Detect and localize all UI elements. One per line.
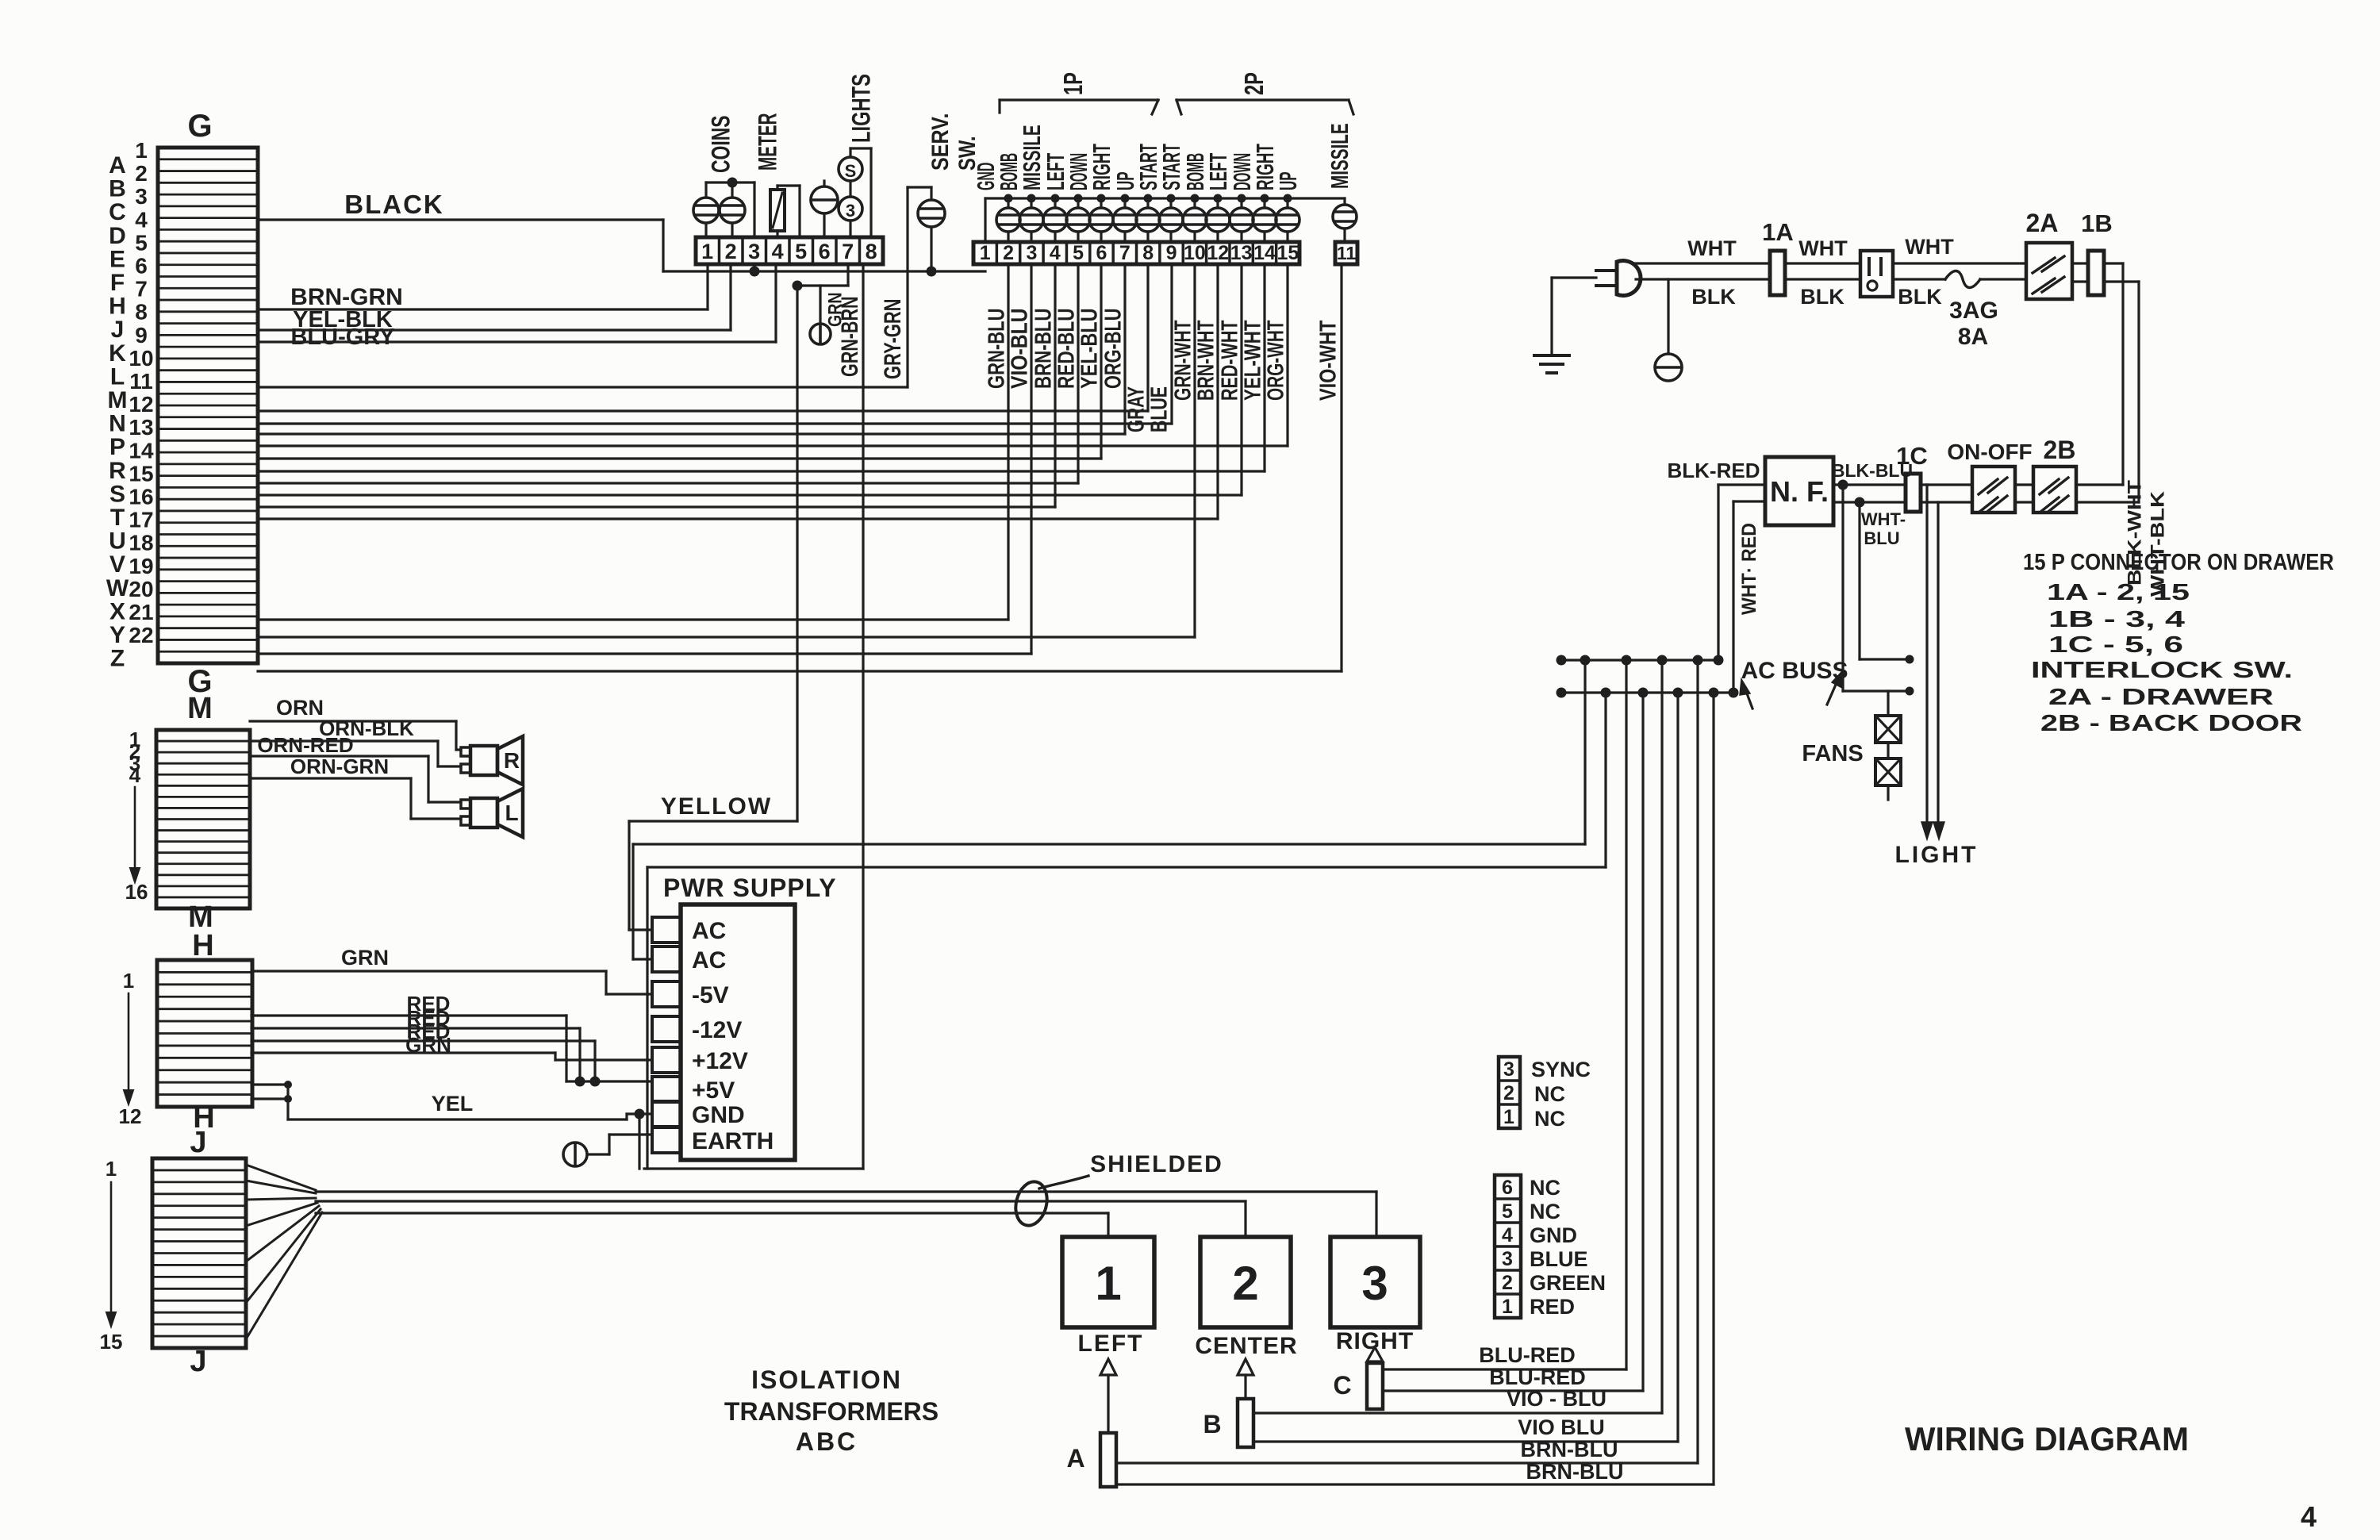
svg-text:NC: NC — [1534, 1107, 1565, 1131]
svg-text:VIO - BLU: VIO - BLU — [1507, 1387, 1606, 1411]
svg-text:16: 16 — [125, 880, 148, 904]
svg-text:22: 22 — [129, 623, 153, 647]
svg-text:SERV.: SERV. — [927, 113, 954, 171]
svg-text:C: C — [109, 199, 126, 225]
svg-text:H: H — [109, 294, 126, 320]
wire G row 11 to GRY-GRN — [258, 386, 908, 388]
svg-text:GRN: GRN — [405, 1033, 451, 1057]
fan B1 — [1875, 691, 1901, 743]
bracket 1P — [1000, 72, 1158, 114]
svg-text:RED-BLU: RED-BLU — [1054, 309, 1079, 390]
svg-text:CENTER: CENTER — [1195, 1333, 1297, 1359]
video connector 3-2-1 — [1499, 1057, 1591, 1131]
svg-text:5: 5 — [135, 230, 148, 255]
wire WHT-RED N.F. to AC buss — [1733, 501, 1765, 693]
svg-text:K: K — [109, 340, 126, 367]
svg-text:R: R — [504, 748, 520, 773]
svg-text:7: 7 — [1119, 242, 1130, 264]
wire YEL-BLK from G row 9 — [258, 264, 731, 332]
label SHIELDED with loop — [1011, 1151, 1223, 1229]
wire fan-out from J — [246, 1165, 322, 1339]
svg-text:NC: NC — [1534, 1082, 1565, 1106]
wire BLK 1A to outlet — [1785, 279, 1860, 309]
svg-text:GRN-BRN: GRN-BRN — [837, 297, 863, 378]
connector H — [157, 929, 252, 1135]
svg-text:GRAY: GRAY — [1123, 386, 1149, 432]
wire shielded line 3 — [316, 1213, 1108, 1237]
svg-text:2: 2 — [725, 240, 737, 263]
svg-text:W: W — [106, 575, 129, 601]
svg-text:GND: GND — [1530, 1223, 1577, 1247]
svg-text:14: 14 — [1253, 242, 1276, 264]
svg-text:6: 6 — [819, 240, 831, 263]
svg-text:A: A — [109, 152, 126, 179]
svg-text:9: 9 — [1166, 242, 1177, 264]
wire GRY-GRN vertical — [906, 187, 908, 387]
svg-text:Z: Z — [110, 646, 125, 672]
svg-text:3: 3 — [135, 184, 148, 209]
wire YELLOW drop from TS1-5 — [796, 286, 798, 821]
svg-text:18: 18 — [129, 531, 153, 555]
svg-text:3: 3 — [1361, 1257, 1388, 1310]
svg-text:GRN-BLU: GRN-BLU — [984, 309, 1009, 390]
wire 2B up to 1B — [2076, 485, 2139, 502]
svg-text:-12V: -12V — [692, 1017, 742, 1043]
svg-text:L: L — [110, 363, 125, 390]
connector H pin numbers — [119, 969, 142, 1128]
svg-text:15: 15 — [1276, 242, 1299, 264]
svg-text:14: 14 — [129, 438, 154, 463]
wire fan feed 1 — [1843, 485, 1914, 696]
wire WHT-BLU N.F. to 1C — [1833, 497, 1906, 549]
svg-text:1C - 5, 6: 1C - 5, 6 — [2048, 632, 2183, 658]
interlock switch 2A — [2026, 209, 2072, 299]
svg-text:5: 5 — [1073, 242, 1084, 264]
wire G rows 21-22 — [258, 620, 1342, 671]
svg-text:ORN: ORN — [276, 696, 324, 720]
svg-text:ABC: ABC — [796, 1427, 858, 1456]
svg-text:1: 1 — [1502, 1296, 1513, 1318]
wire color labels below TS2 — [984, 309, 1341, 433]
svg-text:6: 6 — [1096, 242, 1107, 264]
svg-text:13: 13 — [1230, 242, 1253, 264]
svg-text:1C: 1C — [1896, 442, 1928, 470]
svg-text:S: S — [109, 481, 125, 507]
isolation transformer 3 — [1330, 1237, 1420, 1354]
svg-text:BLK-RED: BLK-RED — [1668, 459, 1760, 482]
lights lamp S — [839, 157, 862, 197]
wire WHT 1A to outlet — [1785, 236, 1860, 263]
svg-text:YEL-BLU: YEL-BLU — [1077, 309, 1102, 390]
switch ON-OFF — [1947, 440, 2032, 513]
svg-text:R: R — [109, 458, 126, 484]
labels above TS2 — [972, 123, 1353, 190]
wire BRN-BLU 2 — [1116, 693, 1714, 1484]
wire junction to +5V — [566, 1077, 651, 1087]
wire BRN-BLU 1 — [1116, 660, 1698, 1463]
svg-text:1B - 3, 4: 1B - 3, 4 — [2048, 607, 2185, 632]
svg-text:INTERLOCK SW.: INTERLOCK SW. — [2031, 658, 2293, 683]
svg-text:J: J — [190, 1345, 206, 1378]
svg-text:21: 21 — [129, 600, 153, 624]
svg-text:BRN-BLU: BRN-BLU — [1521, 1438, 1618, 1461]
power supply PS1 — [652, 874, 837, 1160]
svg-text:AC BUSS: AC BUSS — [1741, 658, 1848, 684]
svg-text:2: 2 — [1502, 1272, 1513, 1294]
svg-text:E: E — [109, 246, 125, 272]
speaker L — [461, 789, 523, 837]
wire WHT outlet to 2A — [1893, 235, 2026, 263]
svg-text:WIRING DIAGRAM: WIRING DIAGRAM — [1905, 1420, 2189, 1457]
svg-text:1: 1 — [1095, 1257, 1121, 1310]
wire YEL — [251, 1081, 651, 1119]
svg-text:9: 9 — [135, 323, 148, 348]
svg-text:15 P CONNECTOR ON DRAWER: 15 P CONNECTOR ON DRAWER — [2023, 550, 2334, 575]
svg-text:METER: METER — [754, 113, 782, 171]
svg-text:4: 4 — [129, 763, 141, 787]
svg-text:19: 19 — [129, 554, 153, 578]
svg-text:ON-OFF: ON-OFF — [1947, 440, 2032, 464]
GND bus over TS2 — [985, 194, 1345, 243]
wire BLU-GRY from G row 10 — [258, 264, 776, 350]
meter M1 — [770, 186, 800, 237]
connector 1B — [2081, 209, 2113, 295]
svg-text:12: 12 — [129, 392, 153, 417]
svg-text:3: 3 — [1502, 1248, 1513, 1270]
wire VIO-BLU 1 — [1253, 660, 1662, 1413]
svg-text:ORG-BLU: ORG-BLU — [1100, 309, 1126, 390]
terminal 11 (missile) — [1335, 242, 1357, 264]
svg-text:1: 1 — [135, 138, 148, 163]
svg-text:U: U — [109, 528, 126, 555]
svg-text:TRANSFORMERS: TRANSFORMERS — [724, 1397, 939, 1426]
ground bus under TS1 — [663, 264, 985, 277]
connector G (44-pin edge connector) — [158, 109, 258, 699]
svg-text:BLUE: BLUE — [1530, 1247, 1588, 1271]
svg-text:PWR SUPPLY: PWR SUPPLY — [663, 874, 837, 902]
svg-text:T: T — [110, 505, 125, 531]
svg-text:D: D — [109, 223, 126, 249]
neutral lamp — [1655, 279, 1682, 381]
svg-text:15: 15 — [100, 1330, 123, 1354]
connector A — [1066, 1359, 1116, 1487]
terminal strip TS1 (8 positions) — [696, 237, 883, 264]
svg-text:6: 6 — [1502, 1177, 1513, 1199]
svg-text:M: M — [187, 692, 213, 725]
svg-text:BLK: BLK — [1898, 285, 1942, 309]
svg-text:8A: 8A — [1958, 324, 1988, 350]
svg-text:WHT-: WHT- — [1861, 509, 1906, 529]
svg-text:AC: AC — [692, 947, 726, 974]
svg-text:GRY-GRN: GRY-GRN — [880, 299, 906, 380]
svg-text:5: 5 — [795, 240, 807, 263]
svg-text:P: P — [109, 434, 125, 460]
switch lamps above TS2 pins 2-15 — [996, 198, 1299, 242]
AC buss top — [1557, 655, 1724, 666]
isolation transformer 2 — [1195, 1237, 1297, 1359]
wire BLACK from G row 4 — [258, 190, 663, 271]
svg-text:1A: 1A — [1762, 218, 1794, 246]
svg-text:7: 7 — [842, 240, 854, 263]
svg-text:GREEN: GREEN — [1530, 1271, 1606, 1295]
svg-text:BRN-BLU: BRN-BLU — [1031, 309, 1056, 390]
wire GND branch down — [638, 1114, 640, 1169]
label SERV. SW. — [927, 113, 981, 171]
wire fan feed 2 — [1860, 502, 1914, 664]
wire BLK-BLU N.F. to 1C — [1832, 460, 1913, 490]
svg-text:M: M — [108, 387, 128, 413]
svg-text:NC: NC — [1530, 1176, 1560, 1200]
svg-text:11: 11 — [129, 369, 153, 394]
svg-text:B: B — [109, 176, 126, 202]
coin switch 2 — [720, 182, 745, 237]
svg-text:2: 2 — [1232, 1257, 1258, 1310]
connector G pin numbers 1-22 — [129, 138, 154, 647]
wire ORN-BLK — [250, 716, 461, 766]
svg-text:EARTH: EARTH — [692, 1128, 773, 1154]
svg-text:VIO BLU: VIO BLU — [1518, 1415, 1605, 1439]
svg-text:16: 16 — [129, 485, 153, 509]
svg-text:VIO-BLU: VIO-BLU — [1007, 309, 1032, 390]
svg-text:3: 3 — [748, 240, 760, 263]
svg-text:BLUE: BLUE — [1146, 386, 1172, 432]
svg-text:LIGHTS: LIGHTS — [847, 74, 876, 143]
svg-text:BRN-BLU: BRN-BLU — [1526, 1460, 1624, 1484]
svg-text:2A: 2A — [2026, 209, 2059, 237]
svg-text:RIGHT: RIGHT — [1336, 1328, 1414, 1354]
svg-text:-5V: -5V — [692, 982, 729, 1008]
outlet J1 — [1860, 251, 1893, 297]
wire band G rows 12-17 to 15P connector drops — [258, 411, 1288, 519]
svg-text:3: 3 — [1503, 1058, 1514, 1081]
label AC BUSS — [1740, 658, 1848, 709]
svg-text:B: B — [1203, 1410, 1221, 1438]
svg-text:3AG: 3AG — [1949, 298, 1998, 324]
svg-text:4: 4 — [135, 207, 148, 232]
terminal strip TS2 (15 positions) — [973, 242, 1299, 264]
svg-text:12: 12 — [119, 1104, 142, 1128]
connector G letter labels A-Z — [106, 152, 129, 672]
svg-text:N. F.: N. F. — [1770, 475, 1829, 508]
svg-text:5: 5 — [1502, 1200, 1513, 1223]
connector J pin numbers — [100, 1157, 123, 1354]
svg-text:ORN-RED: ORN-RED — [257, 733, 353, 757]
svg-text:1: 1 — [701, 240, 713, 263]
svg-text:Y: Y — [109, 622, 125, 648]
wire WHT-BLK 1B down to 2B — [2104, 282, 2169, 597]
svg-text:S: S — [845, 161, 857, 181]
fan B2 — [1875, 743, 1901, 800]
svg-text:4: 4 — [772, 240, 784, 263]
missile lamp at terminal 11 — [1333, 205, 1357, 242]
svg-text:J: J — [111, 317, 125, 343]
svg-text:AC: AC — [692, 918, 726, 944]
svg-text:FANS: FANS — [1802, 741, 1863, 766]
wire ORN-GRN — [250, 755, 461, 819]
svg-text:RED-WHT: RED-WHT — [1217, 320, 1242, 401]
svg-text:ISOLATION: ISOLATION — [751, 1365, 902, 1394]
svg-text:1: 1 — [106, 1157, 117, 1181]
svg-text:A: A — [1066, 1444, 1084, 1473]
svg-text:GND: GND — [692, 1102, 745, 1128]
LIGHTS bracket wire — [850, 148, 871, 237]
svg-text:L: L — [505, 801, 518, 825]
svg-text:1B: 1B — [2081, 209, 2113, 237]
svg-text:SYNC: SYNC — [1531, 1058, 1591, 1081]
lamp GRN — [793, 264, 849, 344]
wire chassis to buss — [647, 693, 1606, 867]
svg-text:1: 1 — [123, 969, 134, 993]
svg-text:10: 10 — [129, 346, 153, 371]
svg-text:BLU-GRY: BLU-GRY — [290, 325, 394, 350]
svg-text:MISSILE: MISSILE — [1326, 123, 1353, 189]
svg-text:C: C — [1333, 1371, 1351, 1400]
note 15P connector on drawer — [2023, 550, 2334, 736]
svg-text:N: N — [109, 411, 126, 437]
svg-text:8: 8 — [866, 240, 877, 263]
svg-text:F: F — [110, 270, 125, 296]
svg-text:1: 1 — [980, 242, 991, 264]
svg-text:X: X — [109, 598, 125, 624]
svg-text:WHT: WHT — [1687, 236, 1737, 260]
svg-text:2: 2 — [1503, 1082, 1514, 1104]
svg-text:1P: 1P — [1058, 72, 1088, 95]
wire RED 3 — [251, 1020, 595, 1081]
svg-text:UP: UP — [1274, 171, 1302, 190]
svg-text:J: J — [190, 1126, 206, 1159]
ground symbol — [1534, 355, 1569, 373]
service switch SERV.SW. — [908, 187, 945, 277]
svg-text:+5V: +5V — [692, 1077, 735, 1104]
video connector 6-1 — [1495, 1175, 1606, 1319]
svg-text:LIGHT: LIGHT — [1895, 842, 1979, 868]
wire 2A to 1B — [2072, 263, 2088, 282]
svg-text:11: 11 — [1337, 243, 1357, 263]
wire LIGHT 2 — [1933, 502, 1944, 839]
isolation transformer 1 — [1062, 1237, 1154, 1357]
wire ORN-RED — [250, 733, 461, 802]
svg-text:WHT: WHT — [1798, 236, 1848, 260]
svg-text:G: G — [187, 109, 212, 144]
svg-text:2B: 2B — [2044, 436, 2076, 464]
lights lamp 3 — [839, 197, 862, 237]
earth ground E2 — [563, 1135, 652, 1166]
connector M — [156, 692, 250, 934]
svg-text:YELLOW: YELLOW — [661, 793, 772, 820]
wire BRN-GRN from G row 8 — [258, 264, 708, 310]
bracket 2P — [1177, 72, 1353, 114]
svg-text:BLK: BLK — [1800, 285, 1844, 309]
svg-text:2P: 2P — [1239, 72, 1269, 95]
noise filter N.F. — [1765, 457, 1833, 525]
svg-text:17: 17 — [129, 508, 153, 532]
svg-text:BLU-RED: BLU-RED — [1489, 1365, 1586, 1389]
svg-text:8: 8 — [135, 300, 148, 325]
svg-text:BRN-WHT: BRN-WHT — [1193, 320, 1219, 401]
svg-text:BLACK: BLACK — [344, 190, 443, 219]
svg-text:4: 4 — [1502, 1224, 1513, 1246]
svg-text:15: 15 — [129, 461, 153, 486]
svg-text:COINS: COINS — [707, 116, 735, 174]
wire BLK-WHT 1B down to 2B — [2104, 263, 2146, 586]
svg-text:GRN: GRN — [341, 946, 389, 970]
svg-text:2B - BACK DOOR: 2B - BACK DOOR — [2040, 711, 2302, 736]
wire BLK-RED N.F. to AC buss — [1718, 485, 1765, 660]
interlock switch 2B — [2033, 436, 2076, 513]
svg-text:SHIELDED: SHIELDED — [1090, 1151, 1223, 1177]
speaker R — [461, 736, 523, 785]
connector C — [1333, 1347, 1383, 1409]
wire BLU-RED 2 — [1383, 693, 1643, 1391]
wire RED 2 — [251, 1006, 580, 1081]
wire GRN H to +12V — [251, 1033, 651, 1060]
wire ON-OFF to 2B — [2015, 485, 2033, 502]
svg-text:4: 4 — [1050, 242, 1061, 264]
svg-text:GRN-WHT: GRN-WHT — [1170, 320, 1196, 401]
wire YELLOW to AC pin — [629, 821, 797, 930]
wire shielded line 2 — [316, 1201, 1246, 1237]
wire PWR AC to buss — [633, 660, 1585, 959]
wire BLK plug to 1A — [1636, 279, 1770, 309]
svg-text:2: 2 — [135, 161, 148, 186]
connector 1A — [1762, 218, 1794, 295]
svg-text:BLU-RED: BLU-RED — [1479, 1343, 1576, 1367]
wire RED 1 — [251, 992, 566, 1081]
wire VIO-BLU 2 — [1253, 693, 1678, 1442]
svg-text:3: 3 — [846, 201, 855, 221]
COINS bracket wire — [706, 178, 754, 238]
svg-text:WHT: WHT — [1905, 235, 1954, 259]
wire LIGHT 1 — [1921, 485, 1933, 839]
wire ORN — [250, 696, 461, 750]
svg-text:YEL: YEL — [432, 1092, 474, 1116]
wire GRN-BRN drop from TS1-8 — [862, 264, 864, 1169]
lamp at TS1-6 — [811, 181, 838, 237]
svg-text:13: 13 — [129, 415, 153, 440]
chassis enclosure around PWR supply — [644, 867, 863, 1169]
svg-text:8: 8 — [1142, 242, 1154, 264]
svg-text:VIO-WHT: VIO-WHT — [1315, 320, 1341, 401]
svg-text:ORN-GRN: ORN-GRN — [290, 755, 389, 778]
coin switch 1 — [693, 182, 719, 237]
svg-text:YEL-WHT: YEL-WHT — [1240, 320, 1265, 401]
connector 1C — [1896, 442, 1928, 512]
AC plug P1 — [1552, 261, 1641, 356]
note ISOLATION TRANSFORMERS ABC — [724, 1365, 939, 1456]
svg-text:6: 6 — [135, 254, 148, 278]
svg-text:RED: RED — [1530, 1295, 1575, 1319]
svg-text:V: V — [109, 551, 125, 578]
svg-text:ORG-WHT: ORG-WHT — [1263, 320, 1288, 401]
wire drops from TS2 pins — [1008, 264, 1288, 654]
svg-text:LEFT: LEFT — [1078, 1331, 1144, 1357]
wire shielded line 1 — [316, 1192, 1376, 1237]
label fuse 3AG 8A — [1949, 298, 1998, 350]
svg-text:4: 4 — [2301, 1500, 2317, 1533]
svg-text:2A - DRAWER: 2A - DRAWER — [2048, 685, 2274, 710]
svg-text:2: 2 — [1003, 242, 1014, 264]
svg-text:NC: NC — [1530, 1200, 1560, 1223]
svg-text:10: 10 — [1184, 242, 1206, 264]
connector J — [152, 1126, 246, 1378]
svg-text:1: 1 — [1503, 1106, 1514, 1128]
svg-text:BLK: BLK — [1691, 285, 1736, 309]
connector B — [1203, 1359, 1253, 1447]
svg-text:+12V: +12V — [692, 1048, 748, 1074]
AC buss bottom — [1557, 688, 1739, 698]
svg-text:BLU: BLU — [1864, 528, 1899, 548]
wire drop terminal 11 VIO-WHT — [1340, 264, 1342, 671]
